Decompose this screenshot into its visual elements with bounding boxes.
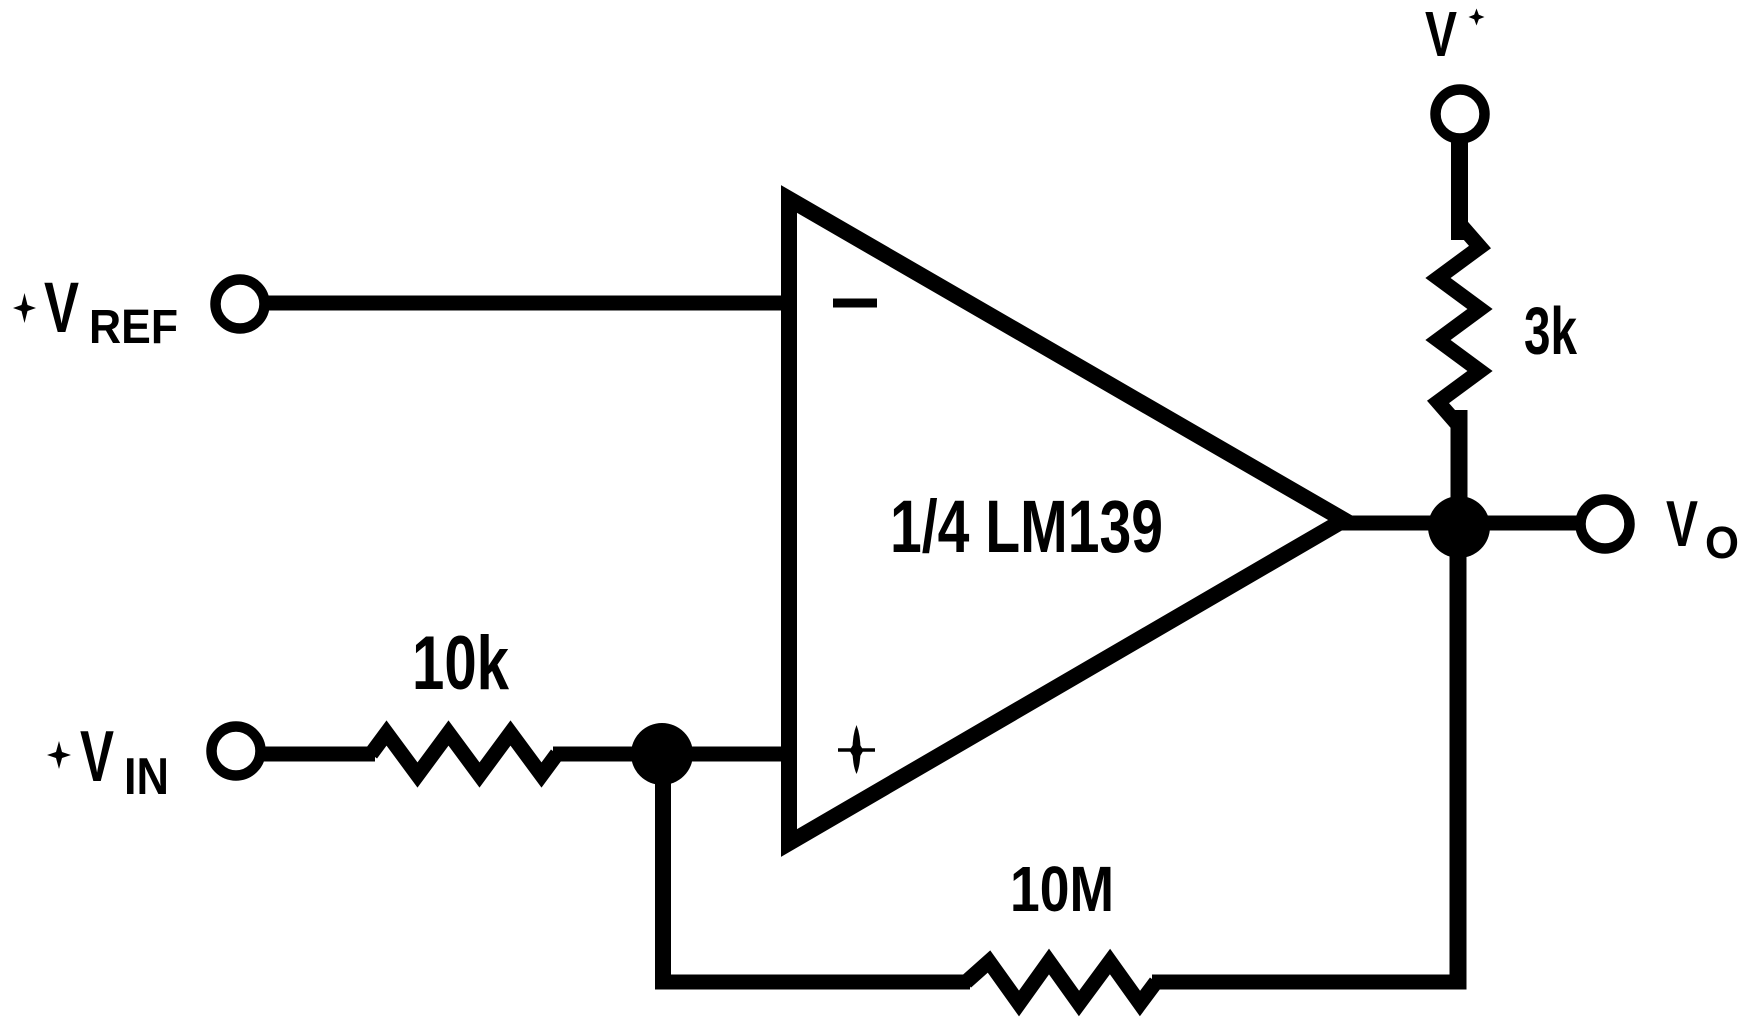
svg-text:O: O (1705, 517, 1739, 568)
terminal +VIN (212, 727, 261, 776)
wire VREF to inverting input (266, 296, 785, 311)
label +VIN (47, 717, 169, 806)
svg-text:V: V (1425, 0, 1457, 70)
wire 10M to feedback corner (1152, 975, 1458, 990)
inverting input - sign (833, 299, 877, 308)
svg-text:10k: 10k (412, 621, 510, 706)
wire R1 to node A (553, 747, 785, 762)
svg-text:V: V (80, 717, 114, 797)
wire output apex to node (1340, 516, 1578, 531)
wire VIN to R1 (262, 747, 375, 762)
wire node A down (655, 750, 671, 982)
label +VREF (13, 269, 178, 354)
wire feedback up to output node (1450, 524, 1467, 990)
wire bottom feedback left (655, 975, 970, 990)
svg-text:10M: 10M (1010, 853, 1114, 925)
svg-text:V: V (44, 269, 79, 348)
op-amp U1 1/4 LM139 (789, 199, 1344, 843)
wire V+ to R2 (1451, 138, 1468, 240)
node A junction (631, 723, 693, 785)
terminal VO (1581, 500, 1630, 549)
power V+ label (1425, 0, 1485, 70)
non-invert input + sign (838, 725, 875, 774)
svg-text:3k: 3k (1524, 294, 1578, 369)
wire R2 to output node (1451, 410, 1468, 510)
resistor R1 10k (371, 733, 557, 775)
resistor R2 3k (1438, 223, 1480, 426)
output node junction (1428, 496, 1490, 558)
terminal V+ (1436, 90, 1485, 139)
terminal +VREF (216, 280, 265, 329)
svg-text:REF: REF (89, 301, 178, 354)
label VO (1666, 487, 1739, 568)
svg-text:IN: IN (124, 748, 169, 806)
svg-text:V: V (1666, 487, 1698, 560)
svg-text:1/4 LM139: 1/4 LM139 (890, 485, 1163, 568)
resistor R3 10M (966, 962, 1156, 1004)
